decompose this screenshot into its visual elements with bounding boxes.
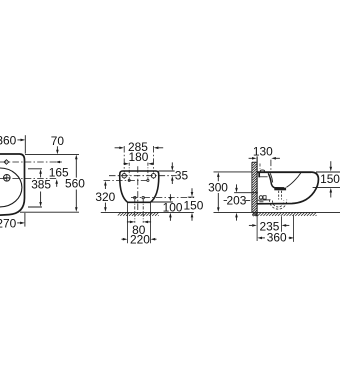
- dim 220 extension lines: [128, 203, 151, 243]
- bottom edge extension to right: [150, 201, 172, 203]
- small hole left: [128, 179, 130, 181]
- dim 300 text: [208, 180, 228, 194]
- dim 320 text: [95, 190, 115, 204]
- fixing holes centerline: [109, 175, 177, 177]
- dim 150 text right: [320, 172, 340, 186]
- dim 385 text: [31, 178, 51, 192]
- bidet outer outline (top view): [0, 154, 25, 215]
- bidet rim top: [257, 171, 311, 173]
- rim extension right: [316, 171, 340, 173]
- wall lines: [251, 162, 253, 212]
- dim 270 arrow: [17, 222, 21, 224]
- floor line: [214, 211, 340, 213]
- dim 560 text: [65, 176, 85, 190]
- ground line: [101, 211, 194, 213]
- dim 300 line and arrows: [217, 172, 220, 177]
- svg-text:130: 130: [253, 144, 273, 158]
- dim 360 text: [267, 231, 287, 245]
- small holes line stub: [188, 196, 194, 198]
- svg-text:360: 360: [267, 231, 287, 245]
- dim 150 arrows: [191, 188, 193, 192]
- dim 220 arrows: [122, 238, 124, 240]
- bottom hole left: [134, 196, 136, 198]
- inner shell line near wall: [258, 199, 271, 201]
- bidet nose and underside profile: [257, 172, 318, 204]
- centerline node B (drain centerline): [0, 178, 57, 180]
- dim 360 right extension: [293, 215, 295, 242]
- dim 235 right extension: [281, 216, 283, 232]
- svg-text:220: 220: [130, 232, 150, 246]
- back corner thick: [258, 173, 260, 178]
- dim 180 arrows: [123, 163, 124, 165]
- bidet inner bowl oval: [0, 168, 22, 207]
- dim 165 lower arrow: [55, 179, 58, 184]
- dim 180 text: [128, 150, 148, 164]
- svg-text:320: 320: [95, 190, 115, 204]
- trap hidden inner arc: [273, 201, 284, 207]
- dim 360 arrows: [262, 237, 265, 239]
- svg-text:100: 100: [163, 201, 183, 215]
- dim 560 dimension line with arrows: [75, 155, 78, 160]
- svg-text:300: 300: [208, 180, 228, 194]
- bowl rear inner line: [270, 173, 272, 182]
- dim 80 extension lines: [135, 199, 143, 223]
- dim 285 text: [128, 140, 148, 154]
- dim 130 text: [253, 144, 273, 158]
- dim 150 text: [183, 198, 203, 212]
- fixing hole right: [151, 174, 155, 178]
- svg-text:560: 560: [65, 176, 85, 190]
- drain hole circle with cross: [4, 175, 11, 182]
- dim 320 arrows and line: [104, 181, 107, 186]
- fixing nut rect: [263, 196, 266, 199]
- dim 270 text: [0, 217, 17, 231]
- top edge extension to right: [159, 170, 175, 172]
- dim 285 extension lines: [123, 146, 125, 172]
- dim 150 arrows right: [330, 161, 332, 167]
- small hole right: [147, 179, 149, 181]
- svg-text:203: 203: [226, 193, 246, 207]
- dim 360 arrow: [17, 139, 21, 141]
- drain flange: [274, 188, 286, 191]
- svg-text:180: 180: [128, 150, 148, 164]
- fixing hole left: [122, 174, 126, 178]
- dim 180 extension lines: [129, 163, 148, 179]
- dim 560 extension lines: [20, 154, 79, 212]
- dim 165 text: [49, 165, 69, 179]
- dim 70 arrow: [56, 146, 58, 150]
- svg-text:150: 150: [320, 172, 340, 186]
- dim 220 text: [130, 232, 150, 246]
- bolt centerline: [259, 164, 261, 171]
- small holes centerline: [104, 179, 150, 181]
- bowl rear wall section: [268, 173, 284, 188]
- dim 165 arrow on centerline A: [55, 161, 60, 164]
- dim 203 text with dashes: [226, 193, 246, 207]
- dim 235 text: [259, 220, 279, 234]
- dim 130 arrows: [249, 157, 252, 159]
- ground hatch: [118, 213, 159, 216]
- under-rim line: [259, 176, 268, 178]
- tap hole diamond: [4, 160, 9, 165]
- wall hatch: [252, 162, 257, 216]
- nose bottom extension: [313, 186, 340, 188]
- dim 385 extension lines: [28, 169, 42, 207]
- dim 100 arrows: [169, 194, 171, 197]
- dim 70 text: [51, 134, 65, 148]
- rim extension line left: [214, 171, 252, 173]
- floor hatch: [252, 213, 316, 216]
- tap centerline vertical: [270, 160, 272, 172]
- svg-text:150: 150: [183, 198, 203, 212]
- svg-text:70: 70: [51, 134, 65, 148]
- svg-text:360: 360: [0, 133, 17, 147]
- svg-text:35: 35: [175, 169, 189, 183]
- trap hidden outer arc: [270, 200, 287, 210]
- dim 203 arrows: [236, 184, 238, 188]
- bidet body front outline: [120, 171, 159, 202]
- outlet centerline: [234, 192, 258, 194]
- dim 360 extension line: [24, 135, 26, 153]
- bottom hole right: [142, 196, 144, 198]
- tap hole oval on rim: [260, 170, 264, 172]
- vertical centerline: [137, 166, 139, 214]
- dim 235 arrows: [249, 224, 252, 226]
- svg-text:270: 270: [0, 217, 17, 231]
- dim 80 text: [132, 223, 146, 237]
- tailpiece hidden lines: [279, 191, 282, 200]
- dim 360 text: [0, 133, 17, 147]
- dim 100 text: [163, 201, 183, 215]
- bolt dashes below: [259, 202, 263, 203]
- bottom holes centerline: [131, 197, 194, 199]
- fixing bolt circle at wall: [259, 196, 262, 199]
- dim 385 dimension line with arrows: [39, 169, 42, 174]
- wall surface extension below floor: [256, 217, 258, 241]
- dim 270 extension line: [24, 213, 26, 227]
- dim 35 arrows: [171, 162, 173, 166]
- bowl front interior line: [286, 173, 300, 187]
- svg-text:385: 385: [31, 178, 51, 192]
- dim 35 text: [175, 169, 189, 183]
- centerline node A (tap centerline): [0, 161, 61, 163]
- dim 285 arrows: [115, 147, 120, 149]
- dim 80 arrows: [127, 221, 130, 223]
